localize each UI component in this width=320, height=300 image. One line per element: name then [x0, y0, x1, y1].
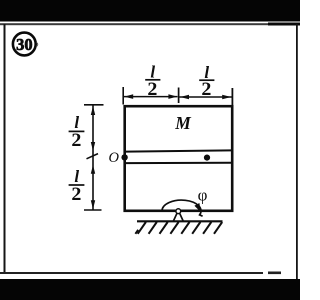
left dimension bottom tick	[84, 209, 102, 211]
slot upper line	[126, 150, 231, 151]
left dimension vertical line	[92, 106, 94, 210]
arrow toward center from left	[168, 94, 177, 99]
pivot point O dot	[121, 154, 127, 160]
ground line	[137, 220, 223, 222]
svg-text:2: 2	[71, 184, 81, 205]
label l/2 left-upper	[69, 113, 85, 151]
top dimension center tick	[178, 88, 180, 104]
pivot right leg	[180, 213, 184, 221]
arrow left-out	[124, 94, 133, 99]
top dimension line right half	[180, 96, 233, 98]
ground hatching	[135, 222, 222, 234]
left border line	[4, 24, 6, 272]
arrow up at top	[91, 106, 95, 115]
problem number badge circle 30	[13, 33, 38, 56]
left dimension middle slanted tick	[87, 154, 99, 159]
top dimension left tick	[122, 87, 124, 105]
arrow right-out	[222, 95, 231, 100]
top rule dark right segment	[268, 23, 300, 26]
top black scan bar	[0, 0, 300, 22]
svg-text:2: 2	[201, 79, 211, 100]
right border line	[296, 24, 298, 279]
ball dot in slot	[204, 155, 210, 161]
slot lower line	[126, 162, 231, 164]
arrow up below middle tick	[91, 165, 95, 174]
arrow toward center from right	[180, 95, 189, 100]
pivot hinge circle	[176, 209, 181, 214]
left dimension top tick	[84, 104, 104, 106]
label l/2 top-left	[145, 62, 160, 99]
plate outline (square plate)	[125, 106, 233, 211]
phi rotation arc	[162, 200, 203, 216]
svg-text:2: 2	[147, 79, 157, 100]
phi arc arrowhead	[194, 203, 200, 212]
svg-text:φ: φ	[198, 186, 208, 205]
label l/2 left-lower	[69, 167, 85, 205]
label l/2 top-right	[199, 63, 214, 100]
bottom thin rule	[0, 272, 263, 274]
pivot left leg	[173, 213, 177, 221]
top thin rule	[0, 23, 300, 25]
bottom black scan bar	[0, 279, 300, 300]
top dimension line left half	[124, 96, 178, 98]
top dimension right tick	[231, 88, 233, 106]
svg-text:O: O	[109, 150, 120, 166]
arrow down at bottom	[91, 200, 95, 209]
arrow down above middle tick	[91, 142, 95, 151]
bottom rule blob	[268, 272, 281, 275]
svg-text:30: 30	[16, 35, 33, 54]
svg-text:M: M	[174, 113, 192, 133]
svg-text:2: 2	[71, 130, 81, 151]
